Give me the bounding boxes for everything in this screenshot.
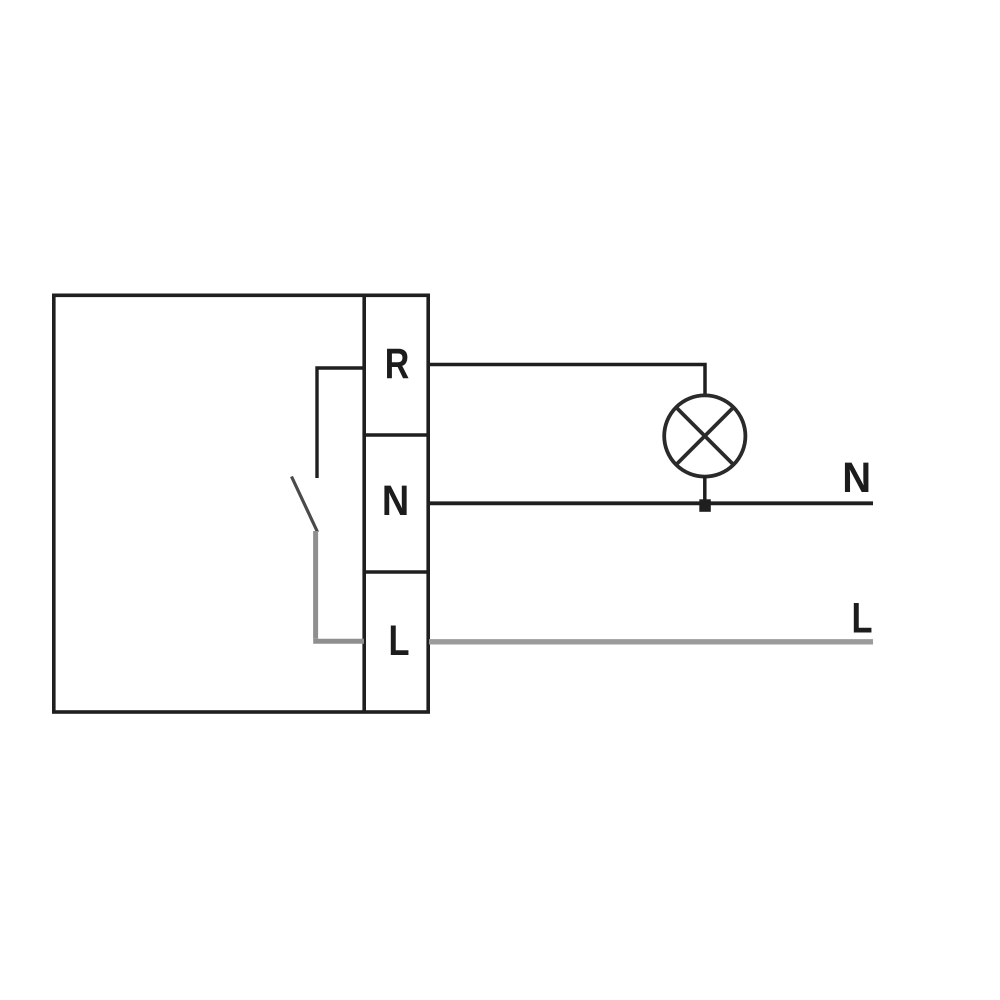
terminal divider R/N [364, 433, 430, 437]
device outline (dimmer/relay box) [54, 295, 428, 712]
wire R terminal to lamp [429, 365, 705, 397]
svg-text:N: N [382, 476, 409, 525]
wire internal R to switch top [317, 368, 364, 478]
junction dot lamp/N [699, 499, 711, 512]
wire switch to L terminal (grey) [313, 639, 364, 644]
net label N [842, 453, 871, 502]
terminal label N [382, 476, 409, 525]
svg-text:L: L [388, 617, 409, 664]
svg-text:N: N [842, 453, 871, 502]
wire N terminal to right [429, 501, 873, 505]
wire lamp bottom to N line [703, 477, 707, 503]
terminal label R [385, 340, 410, 388]
svg-text:L: L [851, 595, 872, 642]
terminal column divider [362, 295, 366, 712]
svg-text:R: R [385, 340, 410, 388]
lamp E1 cross [676, 407, 733, 464]
wire L terminal to right (grey) [429, 639, 873, 644]
lamp E1 circle [664, 395, 745, 476]
net label L [851, 595, 872, 642]
switch S1 blade (open) [292, 477, 318, 533]
terminal label L [388, 617, 409, 664]
wire switch bottom down (grey) [313, 531, 318, 639]
terminal divider N/L [364, 570, 430, 574]
